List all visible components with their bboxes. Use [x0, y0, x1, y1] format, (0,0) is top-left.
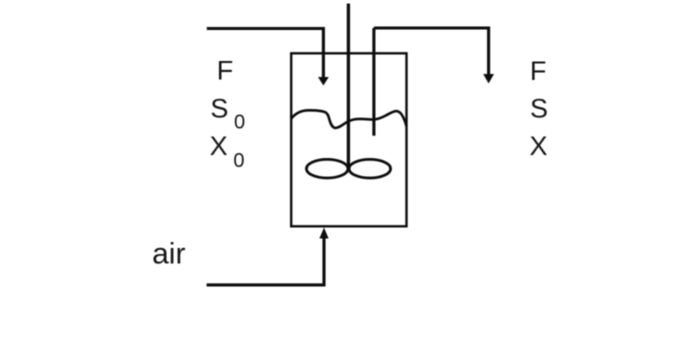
svg-text:X: X: [530, 131, 548, 161]
air arrowhead: [319, 228, 328, 239]
svg-text:F: F: [217, 55, 234, 85]
liquid surface: [291, 110, 406, 128]
svg-text:S: S: [210, 93, 228, 123]
inlet arrowhead: [318, 77, 329, 86]
outlet arrowhead: [483, 74, 494, 84]
impeller right blade: [349, 159, 391, 178]
impeller left blade: [306, 159, 348, 178]
svg-text:0: 0: [234, 112, 245, 134]
inlet pipe: [207, 29, 324, 79]
air pipe: [207, 238, 324, 285]
outlet pipe: [374, 28, 489, 76]
svg-text:F: F: [530, 56, 547, 86]
svg-text:S: S: [530, 94, 548, 124]
svg-text:X: X: [210, 131, 228, 161]
outlet dip tube: [372, 28, 375, 136]
stirrer shaft: [347, 4, 350, 171]
svg-text:0: 0: [233, 150, 244, 172]
vessel: [291, 53, 406, 226]
svg-text:air: air: [152, 237, 185, 270]
